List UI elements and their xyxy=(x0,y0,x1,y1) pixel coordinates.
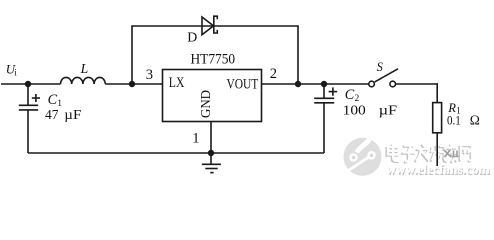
svg-text:L: L xyxy=(80,61,89,76)
svg-text:C: C xyxy=(48,92,58,108)
svg-text:µF: µF xyxy=(379,103,398,118)
diode D xyxy=(202,16,217,35)
svg-text:GND: GND xyxy=(198,90,213,118)
bottom rail wire xyxy=(28,152,324,154)
wire right top down xyxy=(297,26,299,84)
inductor L xyxy=(61,77,106,84)
capacitor C1 xyxy=(19,84,40,153)
svg-text:D: D xyxy=(187,30,197,45)
switch S xyxy=(369,69,398,87)
wire VOUT to switch xyxy=(262,83,369,85)
watermark chinese text 电子发烧友网 xyxy=(387,145,471,164)
wire switch to corner xyxy=(396,83,439,85)
svg-text:Ω: Ω xyxy=(470,112,480,127)
wire LX node up xyxy=(131,26,133,84)
wire inductor to LX pin xyxy=(105,83,162,85)
node junction dot LX xyxy=(129,81,135,87)
wire input rail xyxy=(1,83,61,85)
ground xyxy=(202,153,221,173)
watermark logo circle xyxy=(344,135,382,176)
wire pin1 down xyxy=(210,122,212,154)
wire R1 bottom xyxy=(436,133,438,166)
svg-text:LX: LX xyxy=(169,75,185,91)
svg-text:VOUT: VOUT xyxy=(227,77,259,93)
svg-text:HT7750: HT7750 xyxy=(191,52,236,68)
svg-text:2: 2 xyxy=(270,66,277,82)
svg-text:S: S xyxy=(377,60,383,74)
svg-text:47: 47 xyxy=(45,107,59,122)
wire top rail xyxy=(131,25,299,27)
resistor R1 xyxy=(433,103,442,133)
svg-text:0.1: 0.1 xyxy=(447,112,461,127)
darker watermark fragment xyxy=(444,150,459,158)
node dot ground xyxy=(208,150,214,156)
svg-text:C: C xyxy=(345,87,355,103)
svg-text:100: 100 xyxy=(343,103,366,118)
node junction dot input xyxy=(25,81,31,87)
node dot C2 xyxy=(321,81,327,87)
capacitor C2 xyxy=(314,84,337,153)
svg-text:1: 1 xyxy=(192,130,199,146)
node dot vout-top xyxy=(295,81,301,87)
svg-text:3: 3 xyxy=(146,67,153,83)
wire corner down to R1 xyxy=(436,83,438,102)
svg-text:µF: µF xyxy=(64,107,82,122)
IC U1 HT7750 box xyxy=(163,70,262,122)
svg-text:i: i xyxy=(14,67,17,77)
svg-text:www.elecfans.com: www.elecfans.com xyxy=(386,162,490,177)
